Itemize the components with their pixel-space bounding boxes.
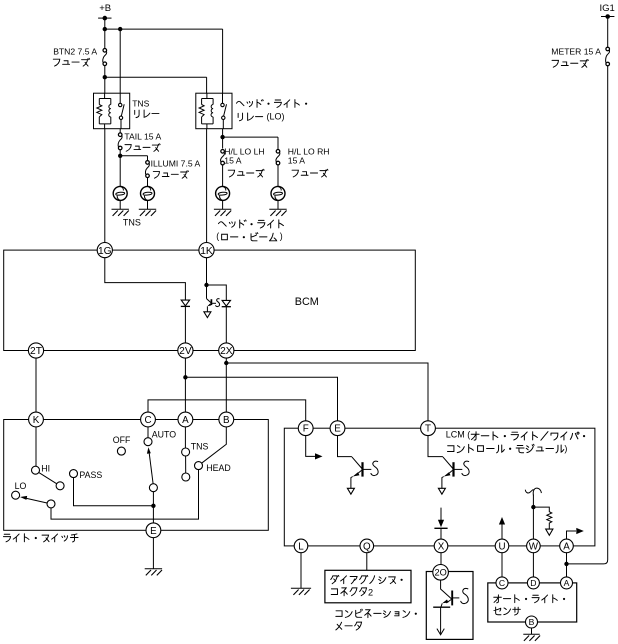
lamp headlight LH low [216,186,230,200]
wire lamp1 to ground [119,200,121,209]
terminal +B [98,16,111,21]
svg-text:D: D [530,578,536,588]
svg-text:LO: LO [15,481,27,491]
wire 2X branch to LCM T [226,363,428,421]
svg-text:15 A: 15 A [288,155,305,165]
label BTN2 7.5 A [53,46,97,66]
contact AUTO [144,438,152,446]
node TNS switch branch [118,27,122,31]
svg-text:PASS: PASS [79,470,102,480]
svg-text:X: X [438,541,445,552]
svg-text:1G: 1G [98,246,112,257]
label BCM [295,296,319,308]
connector E [146,523,161,538]
svg-text:E: E [150,526,157,537]
wire LO pivot to HEAD contact [51,470,199,519]
wire B to ground [531,628,533,634]
label TNS contact [191,442,209,452]
wire PASS to common [74,478,154,506]
label ILLUMI 7.5 A [151,159,201,179]
label TNS lamps [123,218,141,228]
svg-text:2V: 2V [179,346,192,357]
connector A [178,412,193,427]
wire to headlight relay coil [105,77,207,93]
svg-text:AUTO: AUTO [152,429,176,439]
contact TNS [182,448,190,456]
label HI [41,463,50,473]
svg-text:15 A: 15 A [224,155,241,165]
svg-text:IG1: IG1 [600,3,615,14]
module LCM box [284,428,595,546]
wire E into transistor Q2 [338,436,352,457]
node IG1 join [564,562,568,566]
contact main arm [149,484,157,492]
wire B to HEAD contact [202,427,227,463]
fuse H/L LO RH 15A [276,150,280,165]
node switch common [151,504,155,508]
label auto light sensor [494,595,565,615]
wire E to ground [152,538,154,569]
fuse BTN2 7.5A [103,49,107,66]
wire A to TNS contact [184,427,186,448]
switch blade HI [39,472,57,484]
wire common to E [152,506,154,523]
wire ILLUMI fuse to lamp [147,178,149,187]
svg-text:A: A [182,415,189,426]
connector F [298,421,313,436]
svg-text:B: B [223,415,230,426]
svg-text:Q: Q [363,541,371,552]
svg-text:): ) [280,231,283,241]
label HEAD [206,463,230,473]
svg-text:BCM: BCM [295,296,319,308]
power +B label [99,3,111,14]
svg-text:2O: 2O [434,568,446,578]
wire to TNS relay switch [119,29,121,93]
lamp headlight RH low [271,186,285,200]
connector sensor A [561,577,573,589]
svg-text:T: T [425,424,431,435]
wire HL relay coil to BCM 1K [206,129,208,243]
label METER 15 A [551,46,601,67]
contact HI [32,466,40,474]
connector sensor B [526,616,538,628]
connector K [29,412,44,427]
lamp TNS right (illumination) [141,186,155,200]
connector C [141,412,156,427]
connector sensor C [496,577,508,589]
contact OFF [117,447,125,455]
wire X to combination meter [440,553,442,565]
svg-text:K: K [33,415,40,426]
connector 2V [178,343,193,358]
contact below TNS [182,473,190,481]
connector W [527,539,541,553]
switch arm AUTO with arrow [147,447,153,483]
node TNS coil branch [103,75,107,79]
module BCM box [4,250,416,350]
signal arrow up from U [499,517,505,539]
svg-text:TNS: TNS [123,218,141,228]
svg-text:OFF: OFF [113,435,131,445]
svg-text:A: A [563,541,570,552]
relay headlight LO (coil+switch) [196,93,232,129]
terminal IG1 [601,14,614,19]
box combination meter [426,572,473,640]
wire TAIL fuse to node [119,150,121,186]
ground TNS lamp right [139,209,156,216]
node 1K branch [204,283,208,287]
wire BTN2 fuse to node [104,66,106,93]
relay TNS (coil+switch) [94,93,130,129]
wire lamp2 to ground [147,200,149,209]
wire D1 to 2V [184,306,186,343]
transistor Q2 in LCM [347,457,378,494]
svg-text:(LO): (LO) [267,111,285,121]
connector L [294,539,308,553]
lamp TNS left [113,186,127,200]
wire HL switch down [222,129,224,149]
label headlight low beam [216,220,283,241]
wire arm to common node [152,492,154,506]
wire TNS contact down [185,456,187,473]
node W branch [531,505,535,509]
label light switch [3,534,78,542]
connector 1G [97,243,112,258]
connector X [434,539,448,553]
wire 1G to diode D1 [105,258,186,300]
svg-text:TAIL 15 A: TAIL 15 A [124,132,161,142]
resistor in LCM [533,507,551,529]
diode D2 (1K to 2X) [222,300,231,306]
svg-text:METER 15 A: METER 15 A [551,46,601,56]
svg-text:TNS: TNS [132,99,149,109]
fuse ILLUMI 7.5A [145,161,149,178]
wire LH fuse to lamp [222,165,224,186]
contact LO [12,491,20,499]
fuse TAIL 15A [118,133,122,150]
wire A arrow right [567,528,584,539]
wire 2V branch to LCM E [185,377,337,421]
svg-text:L: L [298,541,304,552]
wire to ILLUMI fuse [120,156,147,161]
node 2X branch to LCM T [224,361,228,365]
ground headlight LH [214,209,231,216]
signal arrow onto X [434,508,447,539]
svg-text:C: C [499,578,505,588]
svg-text:(: ( [216,231,219,241]
wire D2 to 2X [225,307,227,343]
wire +B down to fuse [104,18,106,48]
wire METER fuse down right side to sensor A [567,66,608,564]
svg-text:F: F [303,424,309,435]
connector Q [360,539,374,553]
label TNS relay [132,99,159,118]
wire 2V to A [184,358,186,412]
label PASS [79,470,102,480]
svg-text:A: A [564,578,570,588]
svg-text:W: W [529,541,539,552]
wire 2T to K [35,358,37,412]
transistor Q3 in LCM [438,457,469,494]
connector A LCM [560,539,574,553]
label H/L LO LH 15 A [224,147,264,177]
svg-text:LCM (: LCM ( [446,430,471,440]
ground light switch [145,569,162,576]
wire LH lamp to ground [222,200,224,209]
connector E LCM [330,421,345,436]
svg-text:HEAD: HEAD [206,463,230,473]
node 2V branch to LCM E [183,375,187,379]
connector T [421,421,436,436]
wire RH lamp to ground [277,200,279,209]
switch arm LO with arrow [20,496,47,503]
svg-text:B: B [529,617,535,627]
wire 1K branch to diode D2 [207,285,227,300]
power IG1 label [600,3,615,14]
label diagnosis connector 2 [331,575,403,597]
node +B branch [103,27,107,31]
svg-text:2T: 2T [30,346,42,357]
svg-text:): ) [564,444,567,454]
wire TNS switch to TAIL fuse [119,129,121,133]
connector 2O [433,565,449,581]
wire RH fuse to lamp [277,165,279,186]
wire W to sensor D [532,553,534,577]
label headlight relay [236,100,307,122]
node H/L fuse junction [220,135,224,139]
ground sensor B [523,634,540,641]
arrow下 resistor (hollow) [546,529,553,535]
wire U to sensor C [501,553,503,577]
fuse METER 15A [606,47,610,66]
box auto light sensor [488,583,577,622]
wire +B top horizontal to headlight relay switch [105,29,223,93]
label H/L LO RH 15 A [288,147,330,177]
label combination meter [336,609,417,630]
svg-text:C: C [144,415,151,426]
fuse H/L LO LH 15A [221,150,225,165]
switch box (light switch) [4,420,269,531]
connector 2T [28,343,43,358]
transistor Q4 in combination meter [433,580,468,635]
svg-text:+B: +B [99,3,111,14]
wire to H/L LO RH fuse [223,137,278,149]
svg-text:2: 2 [368,587,373,597]
wire F arrow [306,436,323,460]
connector 1K [199,243,214,258]
wire 2X to B [225,358,227,412]
wire switch C to LCM F [148,400,306,421]
wire L to ground [300,553,302,589]
connector B [219,412,234,427]
ground headlight RH [269,209,286,216]
wire W up with squiggle [525,488,541,539]
ground LCM L [291,588,311,595]
wire TNS relay coil to BCM 1G [104,129,106,243]
svg-text:HI: HI [41,463,50,473]
connector 2X [219,343,234,358]
wire 1K down [206,258,208,299]
svg-text:ILLUMI 7.5 A: ILLUMI 7.5 A [151,159,201,169]
svg-text:1K: 1K [200,246,213,257]
svg-text:U: U [498,541,505,552]
svg-text:E: E [334,424,341,435]
contact LO arm pivot [47,500,55,508]
node TAIL/ILLUMI junction [118,154,122,158]
wire K to HI contact [35,427,37,466]
wire Q to diagnosis connector [366,553,368,571]
contact HI blade end [56,482,64,490]
ground TNS lamp left [112,209,129,216]
label LCM [446,430,585,454]
transistor Q1 in BCM [204,299,220,318]
wire C to AUTO contact [147,427,149,438]
label OFF [113,435,131,445]
contact PASS [70,470,78,478]
connector sensor D [527,577,539,589]
diode D1 (1G to 2V) [181,300,190,306]
connector U [495,539,509,553]
label AUTO [152,429,176,439]
label TAIL 15 A [124,132,161,152]
svg-text:TNS: TNS [191,442,209,452]
contact HEAD [195,462,203,470]
wire T into transistor Q3 [428,436,443,457]
svg-text:BTN2 7.5 A: BTN2 7.5 A [53,46,97,56]
svg-text:2X: 2X [220,346,233,357]
wire IG1 to METER fuse [607,17,609,48]
wire A to sensor A [566,553,568,577]
label LO [15,481,27,491]
box diagnosis connector 2 [325,570,411,603]
